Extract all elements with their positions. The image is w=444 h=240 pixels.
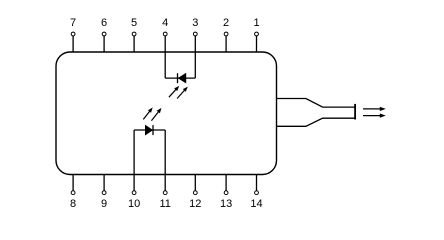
svg-text:3: 3 bbox=[192, 17, 198, 29]
svg-text:8: 8 bbox=[70, 198, 76, 210]
wire photodiode horizontal bbox=[165, 77, 195, 79]
pin 12 bbox=[189, 175, 201, 211]
wire pin 10 to LED anode bbox=[133, 130, 135, 175]
svg-text:14: 14 bbox=[250, 198, 262, 210]
fiber pigtail bottom profile bbox=[277, 118, 356, 126]
pin 3 bbox=[192, 17, 198, 52]
svg-text:12: 12 bbox=[189, 198, 201, 210]
wire pin 4 to photodiode anode bbox=[164, 52, 166, 78]
svg-text:7: 7 bbox=[70, 17, 76, 29]
svg-text:1: 1 bbox=[253, 17, 259, 29]
pin 10 bbox=[128, 175, 140, 211]
LED D2 bbox=[146, 125, 154, 135]
wire LED horizontal bbox=[134, 129, 165, 131]
svg-text:4: 4 bbox=[162, 17, 168, 29]
svg-text:6: 6 bbox=[101, 17, 107, 29]
pin 11 bbox=[159, 175, 170, 211]
svg-text:2: 2 bbox=[223, 17, 229, 29]
wire pin 3 to photodiode cathode bbox=[194, 52, 196, 78]
light arrows out of LED D2 bbox=[143, 108, 161, 121]
pin 6 bbox=[101, 17, 107, 52]
package body bbox=[56, 52, 277, 175]
light arrows into photodiode D1 bbox=[169, 86, 188, 99]
fiber end face bbox=[354, 104, 356, 120]
svg-text:9: 9 bbox=[101, 198, 107, 210]
pin 14 bbox=[250, 175, 262, 211]
pin 4 bbox=[162, 17, 168, 52]
light output arrow lower bbox=[363, 114, 386, 118]
wire pin 11 to LED cathode bbox=[164, 130, 166, 175]
svg-text:10: 10 bbox=[128, 198, 140, 210]
svg-text:11: 11 bbox=[159, 198, 170, 210]
fiber pigtail top profile bbox=[277, 99, 356, 108]
pin 5 bbox=[131, 17, 137, 52]
light output arrow upper bbox=[363, 107, 386, 111]
pin 1 bbox=[253, 17, 259, 52]
svg-text:5: 5 bbox=[131, 17, 137, 29]
pin 2 bbox=[223, 17, 229, 52]
svg-text:13: 13 bbox=[220, 198, 232, 210]
pin 13 bbox=[220, 175, 232, 211]
photodiode D1 bbox=[178, 73, 186, 83]
pin 7 bbox=[70, 17, 76, 52]
pin 9 bbox=[101, 175, 107, 211]
pin 8 bbox=[70, 175, 76, 211]
